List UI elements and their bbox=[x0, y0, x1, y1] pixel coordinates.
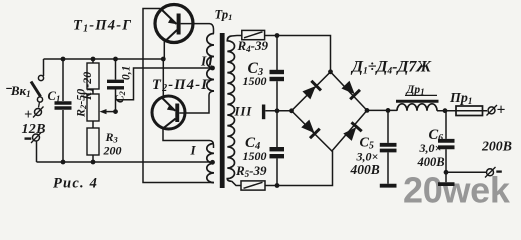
transistor T1 bbox=[155, 5, 193, 43]
capacitor C6 bbox=[438, 111, 455, 183]
resistor R2 (potentiometer) bbox=[87, 89, 99, 128]
svg-text:400В: 400В bbox=[350, 162, 380, 177]
svg-text:200В: 200В bbox=[481, 139, 512, 154]
svg-text:+: + bbox=[497, 102, 506, 119]
svg-text:Т1-П4-Г: Т1-П4-Г bbox=[73, 18, 132, 35]
wire choke to fuse bbox=[437, 110, 487, 112]
svg-text:Пр1: Пр1 bbox=[449, 91, 472, 106]
terminal +12V bbox=[24, 107, 44, 124]
node C1 top bbox=[61, 57, 66, 62]
svg-text:+: + bbox=[24, 107, 32, 123]
wire winding III bottom to R5 bbox=[232, 181, 241, 185]
wire to minus terminal bbox=[446, 171, 487, 173]
node C3/C4 midpoint bbox=[275, 108, 280, 113]
wire T1 base to winding II top bbox=[181, 24, 214, 34]
node R1 top bbox=[91, 57, 96, 62]
node C6 top bbox=[443, 108, 448, 113]
wire T2 base to winding II bottom bbox=[179, 91, 214, 113]
wire T2 emitter up to rail bbox=[162, 59, 164, 98]
node C2 top bbox=[113, 57, 118, 62]
transformer Tp1 core bbox=[220, 33, 225, 188]
capacitor C5 bbox=[380, 110, 397, 183]
terminal bar (winding III lead) bbox=[262, 105, 265, 120]
svg-text:400В: 400В bbox=[417, 155, 445, 169]
terminal +200V bbox=[487, 102, 506, 119]
wire switch drop bbox=[43, 59, 45, 76]
wire bar to bridge left bbox=[265, 110, 291, 112]
svg-text:Тр1: Тр1 bbox=[215, 8, 233, 23]
svg-text:200: 200 bbox=[103, 144, 122, 158]
node winding II tap bbox=[210, 66, 215, 71]
capacitor C4 bbox=[270, 111, 285, 186]
switch Вк1 bbox=[31, 75, 44, 107]
fuse Пр1 bbox=[456, 106, 483, 116]
svg-text:1500: 1500 bbox=[243, 149, 267, 163]
winding III bbox=[227, 36, 234, 181]
node C4 bottom bbox=[275, 183, 280, 188]
terminal -200V bbox=[485, 167, 502, 178]
svg-text:III: III bbox=[234, 104, 253, 119]
diode D3 (lower left arm) bbox=[300, 119, 319, 138]
diode D1 (upper left arm) bbox=[302, 81, 321, 100]
node bridge top bbox=[328, 69, 333, 74]
capacitor C2 bbox=[107, 59, 124, 112]
wire top +rail bbox=[44, 58, 164, 60]
choke Др1 bbox=[396, 95, 439, 110]
svg-text:R3: R3 bbox=[105, 130, 119, 145]
diode D2 (upper right arm) bbox=[341, 80, 360, 99]
winding I bbox=[207, 144, 214, 183]
node winding I tap bbox=[210, 160, 215, 165]
node C5 top bbox=[386, 108, 391, 113]
chassis bar C6 bbox=[438, 182, 455, 186]
svg-text:⁻Вк1: ⁻Вк1 bbox=[4, 83, 31, 99]
node wiper junction bbox=[113, 109, 118, 114]
svg-text:3,0×: 3,0× bbox=[419, 141, 442, 155]
wire base-bias to winding II tap bbox=[116, 68, 212, 100]
wire bridge right to choke bbox=[367, 109, 397, 111]
resistor R1 bbox=[87, 59, 99, 89]
svg-text:С1: С1 bbox=[48, 89, 61, 104]
wire winding III top to R4 bbox=[232, 35, 242, 38]
chassis bar C5 bbox=[380, 184, 397, 188]
svg-text:Рис. 4: Рис. 4 bbox=[53, 176, 98, 192]
wire R5 to bridge bottom bbox=[265, 151, 333, 186]
svg-text:I: I bbox=[190, 143, 197, 158]
svg-text:Д1÷Д4-Д7Ж: Д1÷Д4-Д7Ж bbox=[350, 59, 432, 77]
svg-text:Т2-П4-Г: Т2-П4-Г bbox=[152, 77, 211, 94]
resistor R5 bbox=[241, 181, 265, 190]
diode bridge wires bbox=[292, 72, 368, 151]
winding II bbox=[207, 34, 214, 92]
capacitor C1 bbox=[55, 59, 72, 162]
node C3 top bbox=[275, 33, 280, 38]
node minus output bbox=[444, 170, 449, 175]
svg-text:20wek: 20wek bbox=[403, 170, 511, 206]
svg-text:0,1: 0,1 bbox=[121, 66, 133, 80]
wire bottom -rail bbox=[37, 161, 212, 163]
svg-text:Др1: Др1 bbox=[406, 84, 425, 97]
terminal -12V bbox=[25, 132, 42, 143]
node bridge left bbox=[289, 108, 294, 113]
capacitor C3 bbox=[270, 36, 285, 111]
node C1 bottom bbox=[61, 160, 66, 165]
node R3 bottom bbox=[91, 160, 96, 165]
transistor T2 bbox=[152, 96, 185, 129]
svg-text:1500: 1500 bbox=[243, 74, 267, 88]
svg-text:С2: С2 bbox=[115, 90, 128, 103]
wire T2 collector to winding I top bbox=[163, 129, 214, 149]
diode D4 (lower right arm) bbox=[342, 122, 361, 141]
node rail end bbox=[161, 57, 166, 62]
node bridge right bbox=[365, 108, 370, 113]
resistor R4 bbox=[242, 30, 265, 39]
wire emitter tie T1 (left loop down to winding I bottom) bbox=[143, 9, 214, 183]
svg-text:R5-39: R5-39 bbox=[235, 163, 267, 179]
resistor R3 bbox=[87, 128, 99, 162]
R2 wiper arrow bbox=[100, 109, 116, 114]
wire minus terminal to bottom rail bbox=[36, 141, 38, 162]
wire R4 to bridge top bbox=[265, 36, 331, 72]
svg-text:R2-50: R2-50 bbox=[74, 89, 89, 118]
wire T1 collector down to rail bbox=[163, 42, 165, 60]
svg-text:R4-39: R4-39 bbox=[237, 38, 269, 54]
